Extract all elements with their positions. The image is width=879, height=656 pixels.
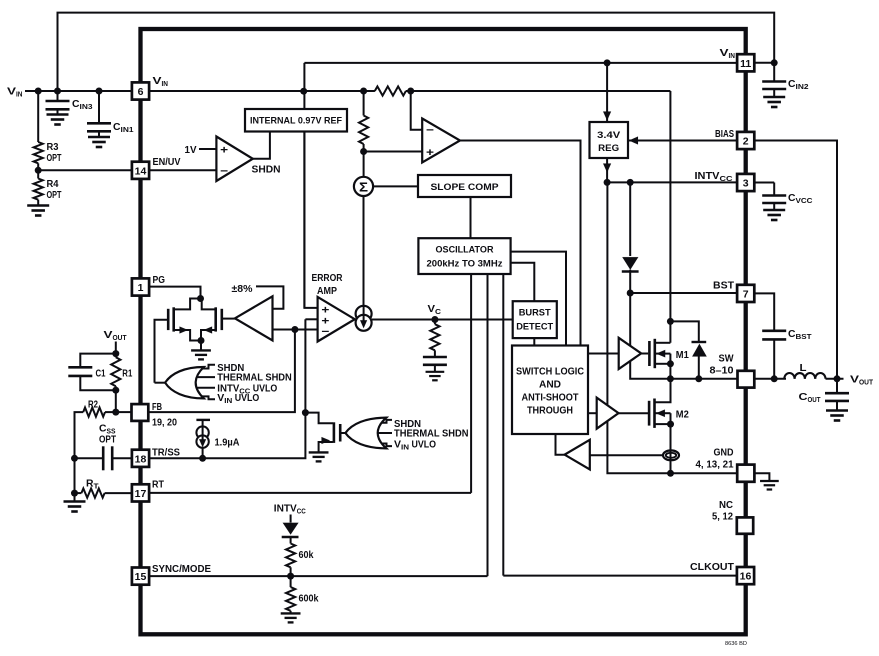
- capacitor CSS: [103, 446, 112, 470]
- pin FB: [132, 404, 149, 421]
- svg-text:INTERNAL 0.97V REF: INTERNAL 0.97V REF: [250, 116, 342, 126]
- junction VIN-CIN3: [54, 88, 61, 95]
- label OR1 INTVCC UVLO: [217, 383, 277, 395]
- label L: [800, 362, 808, 374]
- svg-text:+: +: [426, 147, 434, 159]
- label NC pins: [712, 511, 733, 523]
- wire comp out to logic: [556, 434, 565, 455]
- label pin1 PG: [153, 274, 166, 286]
- svg-text:REG: REG: [598, 143, 619, 154]
- wire OR1 input stubs: [192, 365, 216, 400]
- junction INTVCC diode: [627, 179, 634, 186]
- wire burst to logic: [533, 338, 535, 345]
- junction R1-C1 bottom: [112, 387, 119, 394]
- wire boost diode top: [670, 321, 698, 341]
- diode D-BST bootstrap: [622, 257, 639, 293]
- svg-text:OPT: OPT: [47, 153, 62, 164]
- amplifier M1 driver: [619, 338, 642, 369]
- capacitor CIN1: [87, 123, 111, 131]
- ground GND pin: [760, 481, 779, 490]
- block SWITCH LOGIC: [512, 346, 588, 435]
- block OSCILLATOR: [418, 238, 510, 274]
- svg-text:ANTI-SHOOT: ANTI-SHOOT: [522, 393, 579, 404]
- node VIN input label: [7, 86, 23, 99]
- wire C1 bottom: [80, 376, 116, 390]
- wire RT row: [149, 492, 472, 494]
- wire pin 3 to CVCC: [755, 183, 775, 196]
- wire PG row: [150, 287, 201, 299]
- junction VC: [431, 316, 438, 323]
- block SLOPE COMP: [418, 175, 511, 197]
- label OR2 SHDN: [394, 419, 421, 430]
- svg-text:600k: 600k: [299, 594, 319, 605]
- label 60k: [299, 550, 314, 561]
- svg-text:VIN UVLO: VIN UVLO: [394, 439, 436, 451]
- resistor 600k: [286, 576, 295, 611]
- svg-text:AMP: AMP: [317, 286, 337, 297]
- label NC: [719, 499, 733, 511]
- wire PG drain left arm: [174, 299, 201, 310]
- wire EN/UV row: [150, 169, 217, 171]
- wire osc out1: [511, 252, 566, 346]
- wire PG left gate: [155, 320, 169, 383]
- wire ref to error amp: [304, 132, 317, 308]
- label 1V: [185, 144, 197, 156]
- svg-text:NC: NC: [719, 499, 733, 511]
- wire sense to +: [364, 151, 423, 153]
- label RT pin: [152, 478, 164, 490]
- wire pin 7 to CBST: [755, 293, 775, 330]
- svg-text:14: 14: [135, 165, 147, 177]
- svg-text:16: 16: [740, 571, 752, 583]
- svg-text:EN/UV: EN/UV: [153, 156, 181, 168]
- label M1: [676, 349, 689, 361]
- svg-text:GND: GND: [714, 447, 734, 459]
- ground CIN2: [763, 89, 785, 107]
- wire diode column: [629, 182, 631, 256]
- svg-text:−: −: [426, 125, 434, 137]
- wire SW pin to L: [754, 378, 786, 380]
- svg-text:VIN UVLO: VIN UVLO: [217, 393, 259, 405]
- svg-text:BURST: BURST: [519, 307, 551, 318]
- pin 15 SYNC/MODE: [132, 568, 149, 585]
- label FB: [152, 401, 162, 413]
- label CVCC: [788, 193, 813, 205]
- node sigma summer: [354, 177, 373, 196]
- label RT ext: [86, 479, 99, 491]
- svg-text:3.4V: 3.4V: [597, 130, 621, 141]
- ground PG source: [191, 341, 211, 360]
- svg-text:L: L: [800, 362, 808, 374]
- pin 3 INTVCC: [737, 174, 754, 191]
- wire CSS left: [75, 457, 103, 459]
- label CIN2: [788, 79, 809, 91]
- transistor M1: [649, 339, 670, 379]
- ground COUT: [826, 401, 848, 421]
- wire ilim out: [460, 141, 581, 346]
- resistor R2: [83, 408, 105, 417]
- junction ref column VIN row: [300, 88, 307, 95]
- junction sense res left: [360, 88, 367, 95]
- label pin7 BST: [713, 280, 735, 292]
- svg-text:15: 15: [135, 571, 147, 583]
- wire GND pin to ground: [754, 473, 769, 480]
- wire INTVCC rail down lower: [607, 421, 737, 473]
- wire L to VOUT: [826, 378, 844, 380]
- wire ref column: [303, 63, 305, 308]
- label FB pins 19 20: [152, 417, 177, 429]
- wire RT left: [75, 492, 82, 494]
- svg-text:R2: R2: [88, 400, 98, 411]
- wire pin 11 to CIN2: [755, 62, 775, 64]
- current source 1.9uA: [196, 420, 210, 458]
- svg-text:7: 7: [743, 288, 749, 300]
- svg-text:SHDN: SHDN: [252, 165, 281, 176]
- label COUT: [799, 391, 821, 404]
- wire 8pct FB input: [273, 329, 295, 331]
- pin 1 PG: [132, 278, 149, 295]
- label OR1 VIN UVLO: [217, 393, 259, 405]
- junction INTVCC left: [604, 179, 611, 186]
- diode D-boost schottky: [692, 342, 707, 379]
- label pin3 INTVCC: [695, 170, 734, 183]
- label 600k: [299, 594, 319, 605]
- transistor PG left FET: [168, 307, 201, 340]
- wire VOUT stem: [115, 342, 117, 354]
- wire COUT stem: [836, 379, 838, 393]
- svg-text:C1: C1: [96, 369, 106, 380]
- wire logic to M2 driver: [588, 412, 597, 414]
- resistor R1: [111, 354, 120, 391]
- junction GND row M2: [667, 470, 674, 477]
- junction VOUT: [834, 375, 841, 382]
- junction VIN reg tap: [604, 59, 611, 66]
- junction VOUT-R1 top: [112, 350, 119, 357]
- wire SS to discharge FET: [305, 413, 333, 424]
- pin 17 RT: [132, 484, 149, 501]
- gate OR1: [165, 367, 204, 398]
- wire 1V stub: [199, 148, 216, 150]
- pin 18 TR/SS: [132, 450, 149, 467]
- junction divider SYNC: [287, 573, 294, 580]
- ground R4: [27, 200, 49, 216]
- label R2: [88, 400, 98, 411]
- svg-text:4, 13, 21: 4, 13, 21: [696, 459, 734, 471]
- wire osc out2 to burst: [511, 263, 535, 302]
- wire BST row: [630, 292, 737, 294]
- op-amp U-ERROR error amp: [318, 297, 355, 342]
- ground SS FET: [309, 452, 329, 461]
- junction SW-CBST: [771, 375, 778, 382]
- junction CIN2: [771, 59, 778, 66]
- pin 14 EN/UV: [132, 162, 149, 179]
- wire R3 top: [37, 91, 39, 142]
- label ERROR AMP: [312, 273, 344, 297]
- transistor M2: [649, 379, 670, 451]
- junction RT left: [71, 490, 78, 497]
- wire PG drain right arm: [201, 299, 216, 310]
- label R1: [122, 369, 132, 380]
- wire VIN to reg arrow: [603, 63, 611, 122]
- wire BIAS to reg arrow: [628, 137, 737, 145]
- junction SW boost: [695, 375, 702, 382]
- svg-text:8636 BD: 8636 BD: [725, 641, 747, 647]
- wire OR1 out: [155, 382, 166, 384]
- wire SYNC row: [149, 575, 488, 577]
- label pin16 CLKOUT: [690, 561, 735, 573]
- svg-text:THROUGH: THROUGH: [527, 406, 573, 417]
- svg-text:3: 3: [743, 178, 749, 190]
- wire sense row: [590, 454, 664, 456]
- junction M2 source: [667, 421, 674, 428]
- wire osc to CLKOUT: [502, 274, 504, 576]
- ground CIN1: [88, 131, 110, 147]
- label OR2 THERMAL SHDN: [394, 429, 469, 440]
- wire sum top: [363, 152, 365, 177]
- wire M1 driver rail upper: [629, 293, 631, 346]
- svg-text:BST: BST: [713, 280, 735, 292]
- ground CVCC: [763, 203, 785, 220]
- wire VIN row internal: [150, 90, 671, 92]
- label OR1 THERMAL SHDN: [217, 373, 291, 384]
- resistor R4: [34, 170, 43, 199]
- wire CBST to SW: [773, 339, 775, 378]
- label SHDN out: [252, 165, 281, 176]
- wire CIN3 stem: [57, 91, 59, 101]
- wire oval to GND row: [670, 460, 672, 474]
- resistor RT: [81, 489, 104, 498]
- junction VIN-CIN1: [96, 88, 103, 95]
- svg-text:2: 2: [743, 136, 749, 148]
- label pin14 EN/UV: [153, 156, 181, 168]
- junction FB node: [291, 326, 298, 333]
- capacitor CBST: [762, 331, 786, 340]
- svg-text:±8%: ±8%: [232, 283, 254, 295]
- svg-text:17: 17: [135, 488, 147, 500]
- junction sense mid: [360, 148, 367, 155]
- label - + ilim comp: [426, 125, 434, 160]
- wire CSS right: [113, 457, 132, 459]
- svg-text:RT: RT: [152, 478, 164, 490]
- junction 1.9uA TRSS: [199, 455, 206, 462]
- junction FB-R2: [112, 409, 119, 416]
- pin 11 VIN: [737, 54, 754, 71]
- svg-text:FB: FB: [152, 401, 162, 413]
- resistor sense vertical: [359, 91, 368, 152]
- svg-text:SW: SW: [719, 353, 734, 365]
- junction SW M1: [667, 375, 674, 382]
- wire CIN2 stem: [773, 63, 775, 81]
- op-amp U-SHDN comparator: [216, 137, 252, 182]
- label TR/SS: [152, 447, 180, 459]
- junction M1 drain boost: [667, 318, 674, 325]
- wire PG right gate: [222, 318, 235, 320]
- current sense oval: [663, 450, 679, 460]
- svg-text:SLOPE COMP: SLOPE COMP: [431, 182, 500, 193]
- label VOUT left: [104, 329, 127, 342]
- wire R1 to FB row: [115, 390, 117, 412]
- diode D-sync: [282, 515, 299, 544]
- svg-text:BIAS: BIAS: [715, 128, 734, 140]
- junction SS node: [302, 409, 309, 416]
- svg-text:+: +: [220, 145, 228, 157]
- wire SS vertical: [149, 319, 318, 458]
- wire sense to -: [411, 91, 423, 130]
- ground left rail: [64, 502, 86, 512]
- svg-text:M1: M1: [676, 349, 689, 361]
- svg-text:OSCILLATOR: OSCILLATOR: [436, 244, 494, 255]
- wire C1 top: [80, 354, 116, 367]
- label SW pins: [710, 365, 734, 377]
- wire CIN1 stem: [98, 91, 100, 123]
- resistor R3: [34, 142, 43, 163]
- svg-text:Σ: Σ: [359, 179, 368, 194]
- block BURST DETECT: [513, 301, 557, 338]
- label CIN1: [113, 122, 134, 134]
- label GND pins: [696, 459, 734, 471]
- svg-text:R3: R3: [47, 142, 59, 153]
- svg-text:THERMAL SHDN: THERMAL SHDN: [394, 429, 469, 440]
- capacitor VC comp: [423, 357, 447, 365]
- junction M1 source: [667, 360, 674, 367]
- svg-text:M2: M2: [676, 409, 689, 421]
- svg-text:19, 20: 19, 20: [152, 417, 177, 429]
- capacitor C1: [68, 367, 92, 376]
- pin 6 VIN: [132, 82, 149, 99]
- resistor 60k: [286, 544, 295, 577]
- label C1: [96, 369, 106, 380]
- label GND: [714, 447, 734, 459]
- wire OR2 input stubs: [372, 420, 392, 446]
- pin 2 BIAS: [737, 132, 754, 149]
- capacitor CIN2: [762, 82, 786, 90]
- ground CIN3: [47, 109, 69, 124]
- wire sum to slope comp: [373, 185, 418, 187]
- wire osc to RT: [470, 274, 472, 493]
- svg-text:ERROR: ERROR: [312, 273, 344, 284]
- wire sum down: [363, 196, 365, 306]
- capacitor COUT: [825, 393, 849, 401]
- wire VIN top rail outer: [58, 13, 775, 91]
- ground 600k: [281, 611, 301, 623]
- wire M1 driver rail lower: [630, 361, 738, 379]
- junction VIN-R3: [35, 88, 42, 95]
- wire reg to INTVCC node: [603, 158, 611, 182]
- label CSS OPT: [99, 424, 116, 446]
- wire 8pct ref: [256, 286, 283, 308]
- inductor L: [784, 373, 825, 379]
- label + - SHDN comp: [220, 145, 228, 178]
- amplifier current comparator: [565, 440, 590, 470]
- label R4 OPT: [47, 179, 62, 201]
- wire CLKOUT row: [503, 575, 737, 577]
- svg-text:6: 6: [138, 86, 144, 98]
- pin 7 BST: [737, 285, 754, 302]
- wire VIN input to pin 6: [25, 90, 132, 92]
- wire FB to error amp minus: [295, 329, 318, 331]
- wire osc to SYNC: [487, 274, 489, 576]
- gm output current source: [356, 306, 372, 331]
- transistor Q-SS discharge: [319, 422, 341, 452]
- svg-text:AND: AND: [539, 380, 561, 391]
- svg-text:1: 1: [138, 282, 144, 294]
- label 8636 BD: [725, 641, 747, 647]
- svg-text:CLKOUT: CLKOUT: [690, 561, 735, 573]
- svg-text:TR/SS: TR/SS: [152, 447, 180, 459]
- svg-text:60k: 60k: [299, 550, 314, 561]
- wire FB row external: [105, 411, 132, 413]
- block 3.4V REG: [590, 122, 629, 158]
- svg-text:1.9µA: 1.9µA: [215, 438, 240, 449]
- junction PG drain: [197, 295, 204, 302]
- op-amp U-PG comparator: [235, 296, 273, 340]
- svg-text:SYNC/MODE: SYNC/MODE: [152, 563, 211, 575]
- svg-text:−: −: [321, 326, 329, 338]
- label SYNC/MODE: [152, 563, 211, 575]
- resistor VC comp: [430, 320, 439, 357]
- label VOUT right: [850, 374, 873, 387]
- wire BIAS to VOUT: [755, 141, 838, 379]
- pin SW: [738, 371, 755, 388]
- label CIN3: [72, 99, 93, 111]
- wire logic to M1 driver: [588, 353, 619, 355]
- label SW: [719, 353, 734, 365]
- pin GND: [737, 465, 754, 482]
- junction CSS left: [71, 455, 78, 462]
- svg-text:R4: R4: [47, 179, 59, 190]
- label 1.9uA: [215, 438, 240, 449]
- pin NC: [737, 517, 753, 533]
- wire FB row internal: [149, 330, 295, 413]
- svg-text:OPT: OPT: [47, 190, 62, 201]
- wire left rail down: [75, 412, 84, 501]
- label VC: [428, 304, 442, 316]
- label pin2 BIAS: [715, 128, 734, 140]
- wire INTVCC row: [607, 181, 737, 183]
- IC chip boundary: [141, 29, 746, 634]
- op-amp U-ILIM comparator: [422, 119, 460, 163]
- label M2: [676, 409, 689, 421]
- ground VC comp: [426, 365, 445, 381]
- label OR1 SHDN: [217, 363, 244, 374]
- label pin6 VIN: [153, 75, 169, 88]
- svg-text:OPT: OPT: [99, 435, 116, 446]
- block INTERNAL 0.97V REF: [245, 109, 347, 132]
- amplifier M2 driver: [597, 398, 619, 429]
- wire slope to osc: [470, 197, 472, 238]
- svg-text:DETECT: DETECT: [516, 321, 553, 332]
- label OR2 VIN UVLO: [394, 439, 436, 451]
- gate OR2: [345, 418, 386, 449]
- wire OR2 out: [340, 432, 345, 434]
- svg-text:5, 12: 5, 12: [712, 511, 733, 523]
- wire R3-R4 junction to pin 14: [35, 163, 132, 174]
- svg-text:SWITCH LOGIC: SWITCH LOGIC: [516, 367, 584, 378]
- svg-text:PG: PG: [153, 274, 166, 286]
- wire M2 gate lead: [619, 412, 649, 414]
- svg-text:−: −: [220, 166, 228, 178]
- label plus-minus 8 percent: [232, 283, 254, 295]
- junction BST node: [627, 290, 634, 297]
- capacitor CIN3: [46, 101, 70, 109]
- wire INTVCC rail down upper: [606, 182, 608, 405]
- label CBST: [788, 329, 812, 341]
- wire VC row: [372, 319, 513, 321]
- capacitor CVCC: [762, 196, 786, 204]
- svg-text:THERMAL SHDN: THERMAL SHDN: [217, 373, 291, 384]
- junction sense res right: [407, 88, 414, 95]
- wire RT to pin 17: [105, 492, 132, 494]
